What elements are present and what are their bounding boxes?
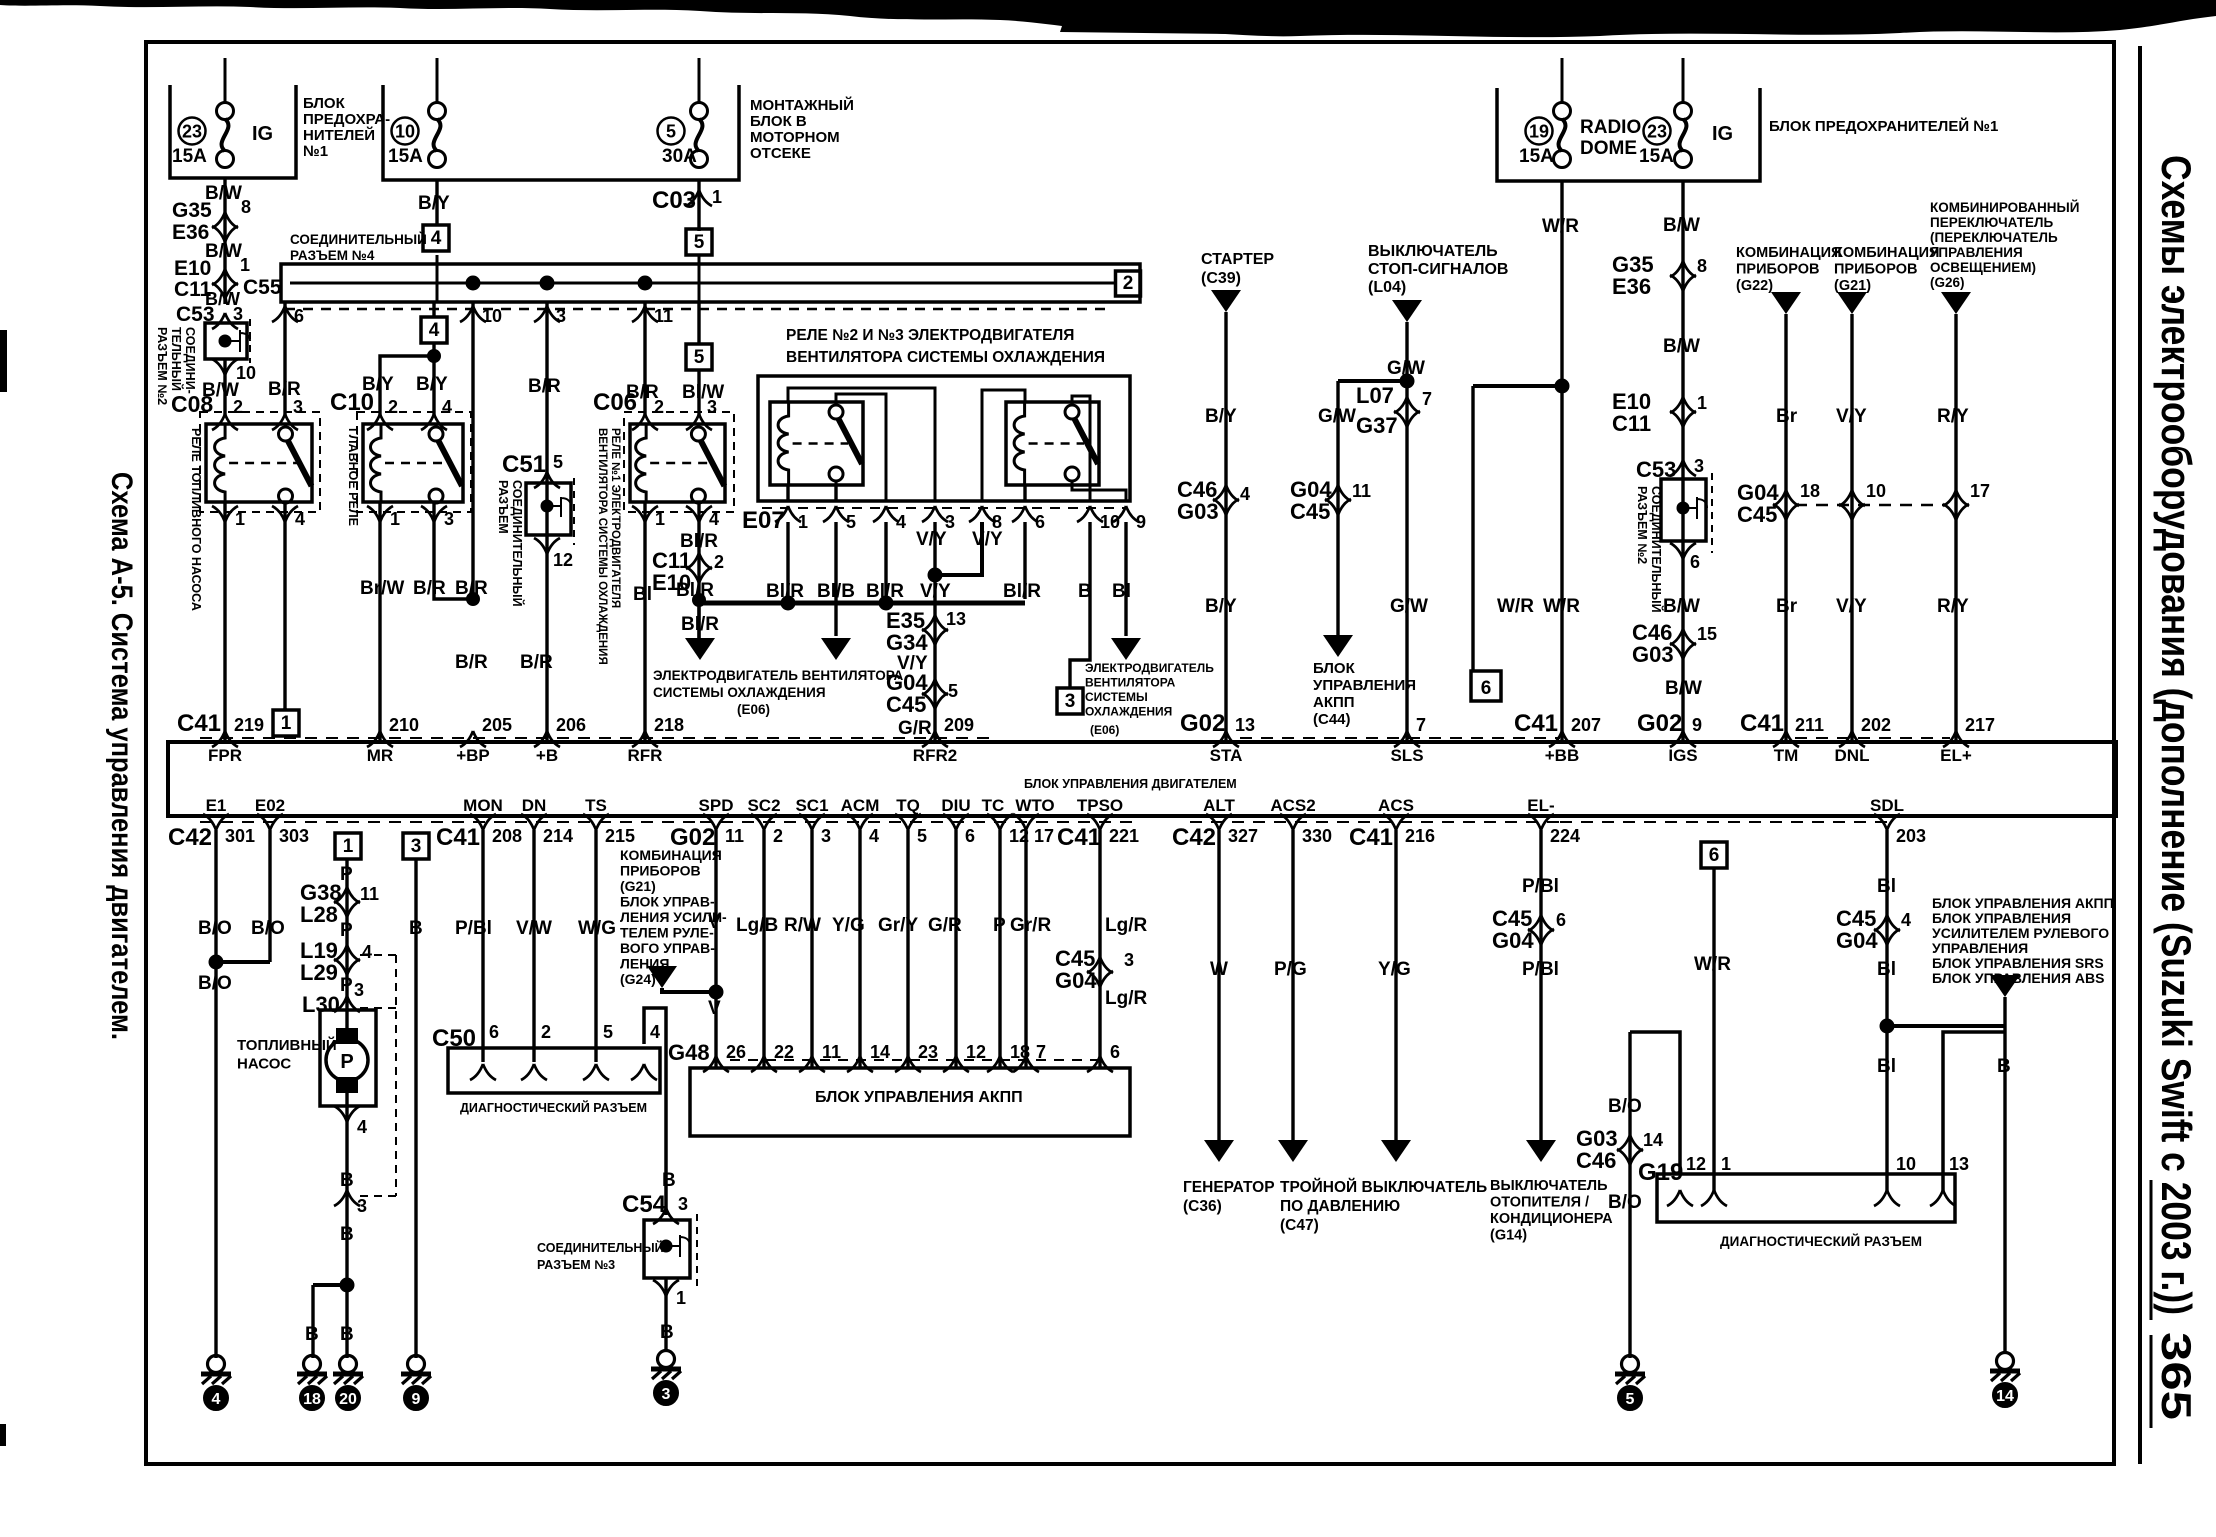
junction connector No4 (bus) [281,264,1140,302]
svg-text:ВЫКЛЮЧАТЕЛЬ: ВЫКЛЮЧАТЕЛЬ [1490,1178,1608,1194]
ECU pin +B (206) [534,731,560,747]
wire to G48 x=860 [858,830,861,1068]
svg-text:330: 330 [1302,826,1332,846]
svg-text:P/Bl: P/Bl [455,918,492,939]
svg-text:G/W: G/W [1318,406,1356,427]
svg-text:РАЗЪЕМ: РАЗЪЕМ [496,480,510,534]
svg-text:ALT: ALT [1203,796,1235,815]
G48 pin 6 [1087,1056,1113,1072]
svg-text:14: 14 [1996,1388,2014,1405]
wire C03 fuse5 [697,180,700,231]
link box [4] upper [423,225,449,251]
svg-text:ТРОЙНОЙ ВЫКЛЮЧАТЕЛЬ: ТРОЙНОЙ ВЫКЛЮЧАТЕЛЬ [1280,1178,1487,1196]
engine control unit (БЛОК УПРАВЛЕНИЯ ДВИГАТЕЛЕМ) [168,742,2116,816]
svg-text:2: 2 [714,552,724,572]
svg-text:РАЗЪЕМ №4: РАЗЪЕМ №4 [290,248,375,263]
svg-text:EL+: EL+ [1940,746,1972,765]
svg-text:1: 1 [240,255,250,275]
triple pressure switch wire P/G [1291,830,1294,1140]
ECU bottom dashed pin line [200,821,700,823]
svg-text:МОТОРНОМ: МОТОРНОМ [750,129,840,146]
ECU pin WTO (17) [1013,814,1039,830]
svg-text:14: 14 [870,1042,890,1062]
svg-text:14: 14 [1643,1130,1663,1150]
ECU pin ALT (327) [1206,814,1232,830]
svg-text:C45: C45 [886,692,926,717]
wire to G48 x=1026 [1024,830,1027,1068]
ECU pin DN (214) [521,814,547,830]
svg-text:5: 5 [948,681,958,701]
svg-text:3: 3 [662,1386,671,1403]
svg-text:12: 12 [966,1042,986,1062]
svg-text:R/W: R/W [784,915,821,936]
svg-text:R/Y: R/Y [1937,406,1969,427]
svg-text:6: 6 [1556,910,1566,930]
bus drop to [5] lower [697,302,700,344]
junction dot [1555,379,1569,393]
ECU pin TS (215) [583,814,609,830]
svg-text:C10: C10 [330,389,374,416]
svg-text:E1: E1 [206,796,227,815]
C53 pin 10 [223,359,226,415]
ground 18 [304,1356,321,1373]
svg-text:6: 6 [965,826,975,846]
svg-text:Lg/B: Lg/B [736,915,778,936]
ground 14 [1997,1353,2014,1370]
svg-text:FPR: FPR [208,746,242,765]
svg-text:15: 15 [1697,624,1717,644]
svg-text:4: 4 [357,1117,367,1137]
junction dot to grounds 18/20 [340,1278,354,1292]
svg-text:B/R: B/R [455,652,488,673]
wire [6] W/R to G19 pin 1 [1712,868,1715,1192]
svg-text:(С39): (С39) [1201,270,1241,287]
fan motor 2 arrow [821,638,851,660]
svg-text:5: 5 [846,512,856,532]
ECU pin FPR (219) [212,731,238,747]
svg-text:ЭЛЕКТРОДВИГАТЕЛЬ ВЕНТИЛЯТОРА: ЭЛЕКТРОДВИГАТЕЛЬ ВЕНТИЛЯТОРА [653,668,904,683]
svg-text:СОЕДИНИТЕЛЬНЫЙ: СОЕДИНИТЕЛЬНЫЙ [290,232,427,247]
svg-text:Y/G: Y/G [1378,959,1411,980]
svg-text:TPSO: TPSO [1077,796,1123,815]
svg-text:B/R: B/R [528,376,561,397]
svg-text:5: 5 [603,1022,613,1042]
svg-text:19: 19 [1529,122,1549,142]
svg-text:L07: L07 [1356,383,1394,408]
radio/dome W/R wire [1560,181,1563,741]
svg-text:211: 211 [1795,715,1824,735]
svg-text:IG: IG [1712,123,1733,145]
link box [1] (to fuel pump) [273,710,299,736]
svg-text:303: 303 [279,826,309,846]
svg-text:ТЕЛЕМ РУЛЕ-: ТЕЛЕМ РУЛЕ- [620,925,714,941]
svg-text:B/W: B/W [1665,678,1702,699]
svg-text:(Е06): (Е06) [1090,723,1119,737]
svg-text:1: 1 [235,509,245,529]
svg-text:IGS: IGS [1668,746,1697,765]
G48 pin 26 [703,1056,729,1072]
junction dot [466,276,480,290]
svg-text:EL-: EL- [1527,796,1554,815]
svg-text:WTO: WTO [1015,796,1054,815]
fan motor 3 arrow [1111,638,1141,660]
svg-text:(G26): (G26) [1930,275,1965,290]
svg-text:ACS2: ACS2 [1270,796,1315,815]
svg-text:13: 13 [946,609,966,629]
wire B/Y fuse10 to [4] [435,180,438,225]
junction dot [540,276,554,290]
svg-text:КОМБИНИРОВАННЫЙ: КОМБИНИРОВАННЫЙ [1930,200,2079,215]
svg-text:C55: C55 [243,276,282,299]
svg-text:P/Bl: P/Bl [1522,959,1559,980]
svg-text:7: 7 [1416,715,1426,735]
svg-text:4: 4 [650,1022,660,1042]
svg-text:БЛОК: БЛОК [303,95,346,112]
branch G/W to AT control unit [1338,379,1407,383]
svg-text:216: 216 [1405,826,1435,846]
scan artifact: torn black bar top [0,0,2216,37]
svg-text:Br: Br [1776,596,1798,617]
svg-text:КОМБИНАЦИЯ: КОМБИНАЦИЯ [620,847,722,863]
svg-text:18: 18 [303,1391,321,1408]
svg-text:DN: DN [522,796,547,815]
svg-text:БЛОК УПРАВЛЕНИЯ ДВИГАТЕЛЕМ: БЛОК УПРАВЛЕНИЯ ДВИГАТЕЛЕМ [1024,777,1237,791]
branch to [6] [1473,384,1562,388]
fuse box #1 (БЛОК ПРЕДОХРАНИТЕЛЕЙ №1) [170,85,296,178]
svg-text:B: B [1078,581,1092,602]
svg-text:8: 8 [241,197,251,217]
svg-text:4: 4 [709,509,719,529]
svg-text:10: 10 [395,122,415,142]
svg-text:Br: Br [1776,406,1798,427]
svg-text:G02: G02 [1637,710,1682,737]
link box [5] upper [686,229,712,255]
svg-text:1: 1 [1697,393,1707,413]
E07 relay A links [788,388,935,501]
svg-text:7: 7 [1422,389,1432,409]
svg-text:6: 6 [1690,552,1700,572]
svg-text:B: B [340,1224,354,1245]
svg-text:V/Y: V/Y [972,529,1003,550]
G48 pin 23 [895,1056,921,1072]
svg-text:C11: C11 [1612,411,1651,436]
C50 pin4 link wire to C54 [644,1008,666,1215]
svg-text:W/G: W/G [578,918,616,939]
svg-text:B/W: B/W [1663,336,1700,357]
dashed harness enclosure [395,955,397,1196]
svg-text:E36: E36 [172,221,209,244]
ECU pin E02 (303) [257,814,283,830]
svg-text:C41: C41 [1349,824,1393,851]
svg-text:B/W: B/W [1663,215,1700,236]
svg-text:(G22): (G22) [1736,278,1773,294]
engine bay junction block (МОНТАЖНЫЙ БЛОК) [383,85,739,180]
svg-text:RFR: RFR [628,746,663,765]
svg-text:+BP: +BP [456,746,490,765]
ground 4 [208,1356,225,1373]
ECU pin +BB (207) [1549,731,1575,747]
ECU pin E1 (301) [203,814,229,830]
wire C10 pin3 B/R join [434,502,473,599]
fuse 10 15A [429,103,446,120]
svg-text:DNL: DNL [1835,746,1870,765]
wire to G48 x=812 [810,830,813,1068]
svg-text:Gr/Y: Gr/Y [878,915,918,936]
svg-text:202: 202 [1861,715,1891,735]
svg-text:W/R: W/R [1543,596,1580,617]
svg-text:3: 3 [1124,950,1134,970]
svg-text:ПРИБОРОВ: ПРИБОРОВ [1834,262,1917,278]
ECU pin EL- (224) [1528,814,1554,830]
svg-text:Br/W: Br/W [360,578,404,599]
svg-text:G37: G37 [1356,413,1398,438]
svg-text:9: 9 [1136,512,1146,532]
svg-text:(G21): (G21) [1834,278,1871,294]
svg-text:4: 4 [429,320,440,341]
svg-text:5: 5 [694,232,705,253]
svg-text:(С44): (С44) [1313,711,1351,728]
svg-text:4: 4 [896,512,906,532]
svg-text:(G21): (G21) [620,878,656,894]
svg-text:Bl/R: Bl/R [1003,581,1041,602]
svg-text:SDL: SDL [1870,796,1904,815]
svg-text:ПРЕДОХРА-: ПРЕДОХРА- [303,111,390,128]
svg-text:P: P [340,975,353,996]
E07 relay B links [982,390,1025,501]
svg-text:SC1: SC1 [795,796,828,815]
svg-text:КОНДИЦИОНЕРА: КОНДИЦИОНЕРА [1490,1211,1613,1227]
svg-text:ВЕНТИЛЯТОРА СИСТЕМЫ ОХЛАЖДЕНИЯ: ВЕНТИЛЯТОРА СИСТЕМЫ ОХЛАЖДЕНИЯ [596,428,608,665]
svg-text:217: 217 [1965,715,1995,735]
svg-text:C41: C41 [1514,710,1558,737]
ECU pin TC (12) [987,814,1013,830]
svg-text:4: 4 [431,228,442,249]
svg-text:B: B [660,1322,674,1343]
E07 relay A [770,402,863,485]
svg-text:G/W: G/W [1390,596,1428,617]
svg-text:БЛОК УПРАВЛЕНИЯ АКПП: БЛОК УПРАВЛЕНИЯ АКПП [815,1089,1023,1106]
svg-text:(ПЕРЕКЛЮЧАТЕЛЬ: (ПЕРЕКЛЮЧАТЕЛЬ [1930,230,2058,245]
svg-text:5: 5 [553,452,563,472]
svg-text:C42: C42 [168,824,212,851]
svg-text:ОХЛАЖДЕНИЯ: ОХЛАЖДЕНИЯ [1085,705,1172,719]
svg-text:G04: G04 [1492,928,1534,953]
svg-text:P/G: P/G [1274,959,1307,980]
svg-text:Bl/R: Bl/R [681,614,719,635]
svg-text:E36: E36 [1612,274,1651,299]
svg-text:301: 301 [225,826,255,846]
svg-text:SC2: SC2 [747,796,780,815]
svg-text:2: 2 [388,397,398,417]
fuse 5 30A [691,103,708,120]
bus drop pin 11 [643,302,646,415]
svg-text:РАЗЪЕМ №3: РАЗЪЕМ №3 [537,1258,615,1272]
svg-text:КОМБИНАЦИЯ: КОМБИНАЦИЯ [1834,245,1939,261]
svg-text:ГЛАВНОЕ РЕЛЕ: ГЛАВНОЕ РЕЛЕ [346,428,360,526]
svg-text:Bl: Bl [1877,1056,1896,1077]
svg-text:11: 11 [725,826,744,846]
svg-text:1: 1 [1721,1154,1731,1174]
ECU pin RFR (218) [632,731,658,747]
horizontal bus wire Bl/R [699,601,1025,606]
svg-text:5: 5 [917,826,927,846]
svg-text:РАЗЪЕМ №2: РАЗЪЕМ №2 [1635,486,1649,564]
svg-text:G03: G03 [1632,642,1674,667]
svg-text:B/O: B/O [198,918,232,939]
wires SPD..WTO colour labels [709,985,723,999]
svg-text:214: 214 [543,826,573,846]
G48 pin 7 [1013,1056,1039,1072]
svg-text:9: 9 [1692,715,1702,735]
svg-text:ACM: ACM [841,796,880,815]
svg-text:365: 365 [2153,1332,2200,1420]
svg-text:327: 327 [1228,826,1258,846]
svg-text:B/O: B/O [1608,1096,1642,1117]
svg-text:1: 1 [390,509,400,529]
svg-text:219: 219 [234,715,264,735]
svg-text:ПЕРЕКЛЮЧАТЕЛЬ: ПЕРЕКЛЮЧАТЕЛЬ [1930,215,2053,230]
svg-text:R/Y: R/Y [1937,596,1969,617]
svg-text:208: 208 [492,826,522,846]
svg-text:TM: TM [1774,746,1799,765]
svg-text:W/R: W/R [1497,596,1534,617]
ECU pin TM (211) [1773,731,1799,747]
svg-text:SLS: SLS [1390,746,1423,765]
svg-text:B: B [662,1170,676,1191]
svg-text:ПРИБОРОВ: ПРИБОРОВ [620,863,701,879]
svg-text:3: 3 [821,826,831,846]
svg-text:C03: C03 [652,187,696,214]
link box [3] [1057,688,1083,714]
svg-text:3: 3 [293,397,303,417]
svg-text:ОСВЕЩЕНИЕМ): ОСВЕЩЕНИЕМ) [1930,260,2036,275]
svg-text:10: 10 [1896,1154,1916,1174]
svg-text:207: 207 [1571,715,1601,735]
link box [2] [1116,271,1141,296]
svg-text:3: 3 [1694,456,1704,476]
svg-text:221: 221 [1109,826,1139,846]
svg-text:6: 6 [489,1022,499,1042]
ACS wire Y/G [1394,830,1397,1140]
svg-text:БЛОК УПРАВ-: БЛОК УПРАВ- [620,894,715,910]
svg-text:G03: G03 [1177,499,1219,524]
svg-text:210: 210 [389,715,419,735]
svg-text:C45: C45 [1290,499,1330,524]
svg-text:5: 5 [666,122,676,142]
svg-text:C41: C41 [1057,824,1101,851]
svg-text:Bl: Bl [1877,876,1896,897]
ECU pin ACS (216) [1383,814,1409,830]
svg-text:C41: C41 [177,710,221,737]
svg-text:20: 20 [339,1391,357,1408]
svg-text:1: 1 [655,509,665,529]
svg-text:B/O: B/O [251,918,285,939]
svg-text:(L04): (L04) [1368,279,1406,296]
svg-text:23: 23 [1647,122,1667,142]
svg-text:C41: C41 [436,824,480,851]
ECU pin SC1 (3) [799,814,825,830]
arrow to other control units [1990,975,2020,997]
svg-text:B/O: B/O [1608,1192,1642,1213]
wire Bl/R C06 pin4 through C11/E10 pin2 [697,502,700,640]
ECU top dashed pin line [200,737,990,739]
svg-text:УПРАВЛЕНИЯ: УПРАВЛЕНИЯ [1932,940,2028,956]
ECU pin RFR2 (209) [922,731,948,747]
svg-text:17: 17 [1034,826,1054,846]
svg-text:1: 1 [676,1288,686,1308]
svg-text:СОЕДИНИ-: СОЕДИНИ- [183,327,197,394]
svg-text:15A: 15A [1639,146,1674,167]
ECU pin ACS2 (330) [1280,814,1306,830]
svg-text:СОЕДИНИТЕЛЬНЫЙ: СОЕДИНИТЕЛЬНЫЙ [1649,486,1664,613]
wire to G48 x=908 [906,830,909,1068]
svg-text:3: 3 [444,509,454,529]
fuse 19 RADIO DOME 15A [1554,103,1571,120]
svg-text:L28: L28 [300,902,338,927]
svg-text:23: 23 [182,122,202,142]
ECU pin SLS (7) [1394,731,1420,747]
svg-text:SPD: SPD [699,796,734,815]
svg-text:10: 10 [236,363,256,383]
svg-text:C54: C54 [622,1191,667,1218]
right B/W chain from fuse 23 [1681,181,1684,741]
svg-text:РЕЛЕ №1 ЭЛЕКТРОДВИГАТЕЛЯ: РЕЛЕ №1 ЭЛЕКТРОДВИГАТЕЛЯ [609,428,621,608]
svg-text:РЕЛЕ №2 И №3 ЭЛЕКТРОДВИГАТЕЛЯ: РЕЛЕ №2 И №3 ЭЛЕКТРОДВИГАТЕЛЯ [786,327,1074,344]
svg-text:Bl/B: Bl/B [817,581,855,602]
junction dot [638,276,652,290]
svg-text:STA: STA [1210,746,1243,765]
SDL wire Bl chain [1885,830,1888,1192]
svg-text:2: 2 [233,397,243,417]
svg-text:E02: E02 [255,796,285,815]
svg-text:11: 11 [822,1042,841,1062]
svg-text:15A: 15A [172,146,207,167]
svg-text:11: 11 [360,884,379,904]
svg-text:ВЕНТИЛЯТОРА: ВЕНТИЛЯТОРА [1085,676,1176,690]
fuel pump pin 4 [345,1106,348,1285]
svg-text:БЛОК: БЛОК [1313,660,1356,677]
svg-text:23: 23 [918,1042,938,1062]
svg-text:B: B [305,1324,319,1345]
svg-text:1: 1 [798,512,808,532]
margin separator line [2138,46,2142,1464]
E07 pin 8 [969,506,995,522]
svg-text:БЛОК УПРАВЛЕНИЯ SRS: БЛОК УПРАВЛЕНИЯ SRS [1932,955,2104,971]
svg-text:26: 26 [726,1042,746,1062]
svg-text:224: 224 [1550,826,1580,846]
svg-text:СТАРТЕР: СТАРТЕР [1201,251,1274,268]
wire B/Y to C10 [432,343,435,415]
svg-text:ПРИБОРОВ: ПРИБОРОВ [1736,262,1819,278]
svg-text:2: 2 [541,1022,551,1042]
ECU pin SC2 (2) [751,814,777,830]
svg-text:(С47): (С47) [1280,1217,1319,1234]
svg-text:Bl/W: Bl/W [682,382,724,403]
svg-text:МОНТАЖНЫЙ: МОНТАЖНЫЙ [750,96,854,114]
link box [1] lower / fuel pump feed [335,833,361,859]
E07 relay B [1006,402,1099,485]
svg-text:P: P [340,864,353,885]
svg-text:3: 3 [411,836,422,857]
svg-text:215: 215 [605,826,635,846]
fuse box #1 right (БЛОК ПРЕДОХРАНИТЕЛЕЙ №1) [1497,88,1760,181]
svg-text:СИСТЕМЫ ОХЛАЖДЕНИЯ: СИСТЕМЫ ОХЛАЖДЕНИЯ [653,685,826,700]
TPSO wire Lg/R chain [1098,830,1101,1068]
svg-text:12: 12 [553,550,573,570]
svg-text:15A: 15A [1519,146,1554,167]
svg-text:Схема А-5. Система управления: Схема А-5. Система управления двигателем… [105,472,138,1040]
fuse 23 IG 15A [1675,103,1692,120]
